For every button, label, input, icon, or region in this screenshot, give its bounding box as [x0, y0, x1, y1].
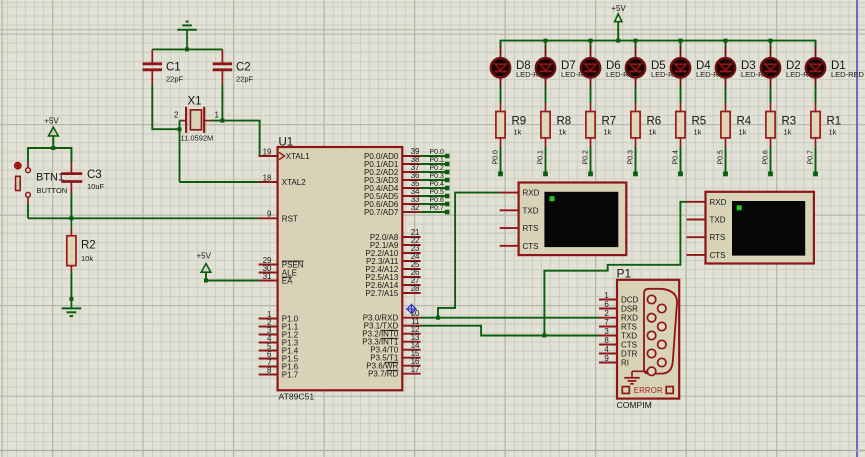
- U1 pin 18 (XTAL2): [259, 173, 307, 187]
- node P0.7 terminal: [421, 205, 450, 214]
- LED D1 labels: [831, 60, 865, 79]
- svg-text:P0.3: P0.3: [430, 173, 445, 180]
- U1 pin 12 (P3.2/INT0): [362, 325, 420, 339]
- wire: LED D2 to resistor R3: [770, 87, 772, 104]
- diode LED D1: [806, 47, 825, 87]
- svg-text:CTS: CTS: [621, 341, 637, 350]
- svg-text:11.0592M: 11.0592M: [181, 134, 214, 143]
- LED D2 labels: [786, 60, 820, 79]
- svg-text:BTN1: BTN1: [36, 172, 64, 184]
- svg-text:17: 17: [411, 365, 420, 374]
- U1 pin 6 (P1.5): [259, 350, 299, 364]
- svg-text:9: 9: [604, 354, 609, 363]
- svg-text:28: 28: [411, 284, 420, 293]
- diode LED D4: [671, 47, 690, 87]
- svg-text:1: 1: [604, 291, 609, 300]
- crystal X1: [174, 96, 219, 143]
- power +5V (button): [44, 116, 59, 148]
- svg-text:R3: R3: [782, 116, 797, 128]
- diode LED D6: [581, 47, 600, 87]
- svg-text:1k: 1k: [694, 128, 702, 137]
- junction: +5V stem on rail: [616, 39, 620, 43]
- U1 pin 33 (P0.6/AD6): [364, 195, 421, 209]
- U1 pin 7 (P1.6): [259, 358, 299, 372]
- wire: C1 to X1 pin 2: [152, 85, 179, 129]
- wire: TXD branch to VT2.RXD: [544, 202, 686, 336]
- svg-text:1k: 1k: [604, 128, 612, 137]
- svg-text:P3.7/RD: P3.7/RD: [368, 370, 398, 379]
- U1 pin 10 (P3.0/RXD): [363, 309, 421, 323]
- node P0.4 terminal: [421, 181, 450, 190]
- svg-text:P0.2: P0.2: [430, 165, 445, 172]
- virtual terminal VT1: [500, 183, 627, 256]
- svg-text:2: 2: [174, 111, 179, 120]
- U1 pin 38 (P0.1/AD1): [364, 155, 421, 169]
- wire: RST net to U1.RST: [28, 217, 259, 219]
- P1 pin 2 (RXD): [599, 309, 638, 323]
- wire: X1 pin2 node to XTAL2: [180, 121, 259, 182]
- wire: rail to LED D3: [725, 41, 727, 48]
- U1 pin 25 (P2.4/A12): [365, 260, 420, 274]
- svg-text:P0.3: P0.3: [627, 150, 634, 165]
- svg-text:1k: 1k: [829, 128, 837, 137]
- resistor R9: [496, 103, 526, 147]
- P1 pin 7 (RTS): [599, 318, 637, 332]
- LED D7 labels: [561, 60, 595, 79]
- sheet border line (right): [856, 0, 858, 457]
- svg-text:P0.0: P0.0: [430, 149, 445, 156]
- U1 pin 5 (P1.4): [259, 342, 299, 356]
- P1 pin 3 (TXD): [599, 327, 637, 341]
- wire: rail to LED D8: [500, 41, 502, 48]
- svg-text:10k: 10k: [81, 254, 93, 263]
- svg-text:DTR: DTR: [621, 350, 638, 359]
- U1 pin 17 (P3.7/RD): [368, 365, 421, 379]
- svg-text:P0.4: P0.4: [672, 150, 679, 165]
- diode LED D8: [491, 47, 510, 87]
- svg-text:R8: R8: [557, 116, 572, 128]
- P1 pin 1 (DCD): [599, 291, 639, 305]
- svg-text:3: 3: [604, 327, 609, 336]
- wire: button to RST net: [27, 204, 29, 218]
- wire: R4 to terminal P0.5: [725, 147, 727, 173]
- svg-text:4: 4: [604, 345, 609, 354]
- wire: rail to LED D7: [545, 41, 547, 48]
- U1 pin 22 (P2.1/A9): [370, 236, 421, 250]
- wire: R3 to terminal P0.6: [770, 147, 772, 173]
- svg-text:+5V: +5V: [196, 251, 211, 260]
- wire: rail to LED D4: [680, 41, 682, 48]
- U1 XTAL1 clock marker: [279, 152, 285, 159]
- svg-text:TXD: TXD: [523, 206, 539, 215]
- U1 pin 8 (P1.7): [259, 366, 299, 380]
- node P0.7 (LED column terminal): [807, 150, 818, 176]
- U1 pin 29 (PSEN): [259, 256, 304, 270]
- resistor R4: [721, 103, 752, 147]
- P1 pin 6 (DSR): [599, 300, 638, 314]
- svg-text:+5V: +5V: [44, 116, 59, 125]
- svg-text:P0.7: P0.7: [430, 205, 445, 212]
- svg-text:6: 6: [604, 300, 609, 309]
- node P0.4 (LED column terminal): [672, 150, 683, 176]
- wire: R7 to terminal P0.2: [590, 147, 592, 173]
- svg-text:COMPIM: COMPIM: [617, 400, 652, 410]
- wire: LED D1 to resistor R1: [815, 87, 817, 104]
- svg-text:P0.6: P0.6: [762, 150, 769, 165]
- diode LED D7: [536, 47, 555, 87]
- P1 DB9 holes: [647, 295, 666, 375]
- svg-text:AT89C51: AT89C51: [279, 392, 315, 402]
- svg-text:P0.7/AD7: P0.7/AD7: [364, 208, 399, 217]
- svg-text:DCD: DCD: [621, 296, 639, 305]
- wire: U1.P3.0/RXD to COMPIM RXD: [421, 317, 599, 319]
- svg-text:RXD: RXD: [523, 189, 540, 198]
- svg-text:1k: 1k: [649, 128, 657, 137]
- wire: rail to LED D1: [815, 41, 817, 48]
- svg-text:R9: R9: [512, 116, 527, 128]
- svg-text:P0.5: P0.5: [430, 189, 445, 196]
- svg-text:C1: C1: [166, 62, 181, 74]
- LED D3 labels: [741, 60, 775, 79]
- U1 pin 1 (P1.0): [259, 310, 299, 324]
- svg-text:P1.7: P1.7: [282, 371, 299, 380]
- wire: RXD branch to VT1.RXD: [438, 193, 500, 318]
- svg-text:CTS: CTS: [710, 251, 726, 260]
- wire: C1 top to C2 top: [152, 48, 222, 50]
- wire: rail to LED D5: [635, 41, 637, 48]
- svg-text:1k: 1k: [514, 128, 522, 137]
- svg-text:RTS: RTS: [523, 224, 539, 233]
- svg-text:DSR: DSR: [621, 305, 638, 314]
- svg-text:R2: R2: [81, 240, 96, 252]
- wire: X1 pin1 node to XTAL1: [211, 121, 260, 156]
- ground (P1 internal): [624, 371, 647, 384]
- svg-text:P2.7/A15: P2.7/A15: [365, 289, 398, 298]
- U1 pin 27 (P2.6/A14): [365, 276, 420, 290]
- svg-text:19: 19: [263, 147, 272, 156]
- capacitor C1: [143, 49, 184, 85]
- node P0.3 terminal: [421, 173, 450, 182]
- U1 pin 31 (EA): [259, 272, 294, 286]
- junction: C3/R2 on RST net: [69, 216, 73, 220]
- U1 pin 35 (P0.4/AD4): [364, 179, 421, 193]
- capacitor C2: [213, 49, 254, 85]
- svg-text:C2: C2: [236, 62, 251, 74]
- svg-text:C3: C3: [87, 169, 102, 181]
- wire: LED D7 to resistor R8: [545, 87, 547, 104]
- power +5V (LED rail): [611, 4, 626, 40]
- P1 ERROR indicator: [622, 386, 673, 395]
- P1 pin 9 (RI): [599, 354, 629, 368]
- svg-text:+5V: +5V: [611, 4, 626, 13]
- U1 pin 3 (P1.2): [259, 326, 299, 340]
- U1 pin 36 (P0.3/AD3): [364, 171, 421, 185]
- BTN1 state indicator: [14, 162, 21, 169]
- svg-text:R5: R5: [692, 116, 707, 128]
- resistor R2: [67, 218, 96, 272]
- svg-text:2: 2: [604, 309, 609, 318]
- node P0.6 terminal: [421, 197, 450, 206]
- svg-text:18: 18: [263, 173, 272, 182]
- wire: C2 to X1 pin 1: [221, 85, 223, 121]
- resistor R8: [541, 103, 571, 147]
- wire: LED D6 to resistor R7: [590, 87, 592, 104]
- svg-text:22pF: 22pF: [236, 75, 254, 84]
- U1 pin 24 (P2.3/A11): [366, 252, 421, 266]
- wire: rail to LED D6: [590, 41, 592, 48]
- sheet border line (bottom): [0, 450, 865, 452]
- svg-text:10uF: 10uF: [87, 182, 105, 191]
- U1 pin 13 (P3.3/INT1): [362, 333, 420, 347]
- wire: +5V to button/C3 top: [28, 148, 71, 162]
- node P0.3 (LED column terminal): [627, 150, 638, 176]
- svg-text:RXD: RXD: [710, 198, 727, 207]
- junction: +5V stem: [51, 146, 55, 150]
- svg-text:32: 32: [411, 203, 420, 212]
- button BTN1: [14, 162, 67, 204]
- U1 pin 16 (P3.6/WR): [366, 357, 420, 371]
- svg-text:LED-RED: LED-RED: [831, 70, 865, 79]
- junction: C2 / X1.1 / XTAL1: [220, 119, 224, 123]
- junction: LED rail: [724, 39, 728, 43]
- svg-text:CTS: CTS: [523, 242, 539, 251]
- svg-text:31: 31: [263, 272, 272, 281]
- junction: LED rail: [634, 39, 638, 43]
- ground (R2): [62, 299, 82, 316]
- svg-text:BUTTON: BUTTON: [37, 186, 68, 195]
- U1 pin 39 (P0.0/AD0): [364, 147, 421, 161]
- svg-text:P0.4: P0.4: [430, 181, 445, 188]
- wire: LED D8 to resistor R9: [500, 87, 502, 104]
- svg-text:1k: 1k: [739, 128, 747, 137]
- junction: R2 ground node: [69, 297, 73, 301]
- wire: rail to LED D2: [770, 41, 772, 48]
- svg-text:8: 8: [267, 366, 272, 375]
- svg-text:XTAL1: XTAL1: [286, 152, 310, 161]
- svg-text:RST: RST: [282, 214, 298, 223]
- svg-text:P0.0: P0.0: [492, 150, 499, 165]
- svg-text:1k: 1k: [784, 128, 792, 137]
- wire: LED D4 to resistor R5: [680, 87, 682, 104]
- junction: LED rail: [589, 39, 593, 43]
- svg-text:1k: 1k: [559, 128, 567, 137]
- P1 DB9 face outline: [644, 289, 677, 374]
- U1 pin 28 (P2.7/A15): [365, 284, 420, 298]
- svg-text:RI: RI: [621, 359, 629, 368]
- junction: LED rail: [769, 39, 773, 43]
- svg-text:TXD: TXD: [710, 216, 726, 225]
- U1 pin 4 (P1.3): [259, 334, 299, 348]
- U1 pin 30 (ALE): [259, 264, 297, 278]
- svg-text:P1: P1: [617, 267, 632, 281]
- U1 pin 21 (P2.0/A8): [370, 228, 421, 242]
- wire: R2 to ground: [70, 272, 72, 299]
- power +5V (EA): [196, 251, 211, 280]
- svg-text:RXD: RXD: [621, 314, 638, 323]
- junction: LED rail: [679, 39, 683, 43]
- wire: C3 bottom to RST net: [70, 193, 72, 218]
- LED D4 labels: [696, 60, 730, 79]
- LED D5 labels: [651, 60, 685, 79]
- svg-text:P0.5: P0.5: [717, 150, 724, 165]
- svg-text:R7: R7: [602, 116, 617, 128]
- svg-text:P0.1: P0.1: [430, 157, 445, 164]
- node P0.5 terminal: [421, 189, 450, 198]
- junction: ground / cap rail: [185, 47, 189, 51]
- svg-text:R4: R4: [737, 116, 752, 128]
- LED D8 labels: [516, 60, 550, 79]
- U1 pin 26 (P2.5/A13): [365, 268, 420, 282]
- svg-text:X1: X1: [188, 96, 202, 108]
- connector P1 (COMPIM): [617, 267, 680, 410]
- U1 pin 23 (P2.2/A10): [365, 244, 420, 258]
- node P0.5 (LED column terminal): [717, 150, 728, 176]
- op-amp U1 body (AT89C51 microcontroller): [278, 136, 403, 401]
- origin marker (blue): [406, 304, 417, 315]
- node P0.2 terminal: [421, 165, 450, 174]
- svg-text:P0.6: P0.6: [430, 197, 445, 204]
- svg-text:RTS: RTS: [621, 323, 637, 332]
- diode LED D3: [716, 47, 735, 87]
- node P0.1 (LED column terminal): [537, 150, 548, 176]
- wire: +5V LED supply rail: [501, 41, 816, 48]
- resistor R3: [766, 103, 796, 147]
- wire: U1.P3.1/TXD to COMPIM TXD: [421, 326, 599, 336]
- svg-text:XTAL2: XTAL2: [282, 178, 306, 187]
- svg-text:P0.7: P0.7: [807, 150, 814, 165]
- P1 pin 8 (CTS): [599, 336, 637, 350]
- resistor R5: [676, 103, 706, 147]
- U1 pin 37 (P0.2/AD2): [364, 163, 421, 177]
- svg-text:RTS: RTS: [710, 233, 726, 242]
- svg-text:8: 8: [604, 336, 609, 345]
- wire: LED D5 to resistor R6: [635, 87, 637, 104]
- ground (crystal caps): [177, 22, 197, 50]
- junction: +5V EA terminal: [204, 279, 208, 283]
- svg-text:R6: R6: [647, 116, 662, 128]
- U1 pin 14 (P3.4/T0): [370, 341, 420, 355]
- wire: R1 to terminal P0.7: [815, 147, 817, 173]
- diode LED D2: [761, 47, 780, 87]
- node P0.0 terminal: [421, 149, 450, 158]
- wire: R8 to terminal P0.1: [545, 147, 547, 173]
- svg-text:P0.2: P0.2: [582, 150, 589, 165]
- svg-text:22pF: 22pF: [166, 75, 184, 84]
- U1 pin 19 (XTAL1): [259, 147, 311, 161]
- svg-text:R1: R1: [827, 116, 842, 128]
- U1 pin 32 (P0.7/AD7): [364, 203, 421, 217]
- wire: R9 to terminal P0.0: [500, 147, 502, 173]
- junction: LED rail: [544, 39, 548, 43]
- svg-text:U1: U1: [279, 136, 294, 148]
- U1 pin 9 (RST): [259, 210, 298, 224]
- capacitor C3: [61, 148, 104, 193]
- svg-text:ERROR: ERROR: [634, 386, 663, 395]
- junction: TXD branch: [542, 334, 546, 338]
- U1 pin 15 (P3.5/T1): [370, 349, 420, 363]
- junction: RXD branch: [436, 316, 440, 320]
- svg-text:P0.1: P0.1: [537, 150, 544, 165]
- node P0.0 (LED column terminal): [492, 150, 503, 176]
- wire: LED D3 to resistor R4: [725, 87, 727, 104]
- LED D6 labels: [606, 60, 640, 79]
- U1 pin 2 (P1.1): [259, 318, 299, 332]
- node P0.2 (LED column terminal): [582, 150, 593, 176]
- P1 pin 4 (DTR): [599, 345, 638, 359]
- diode LED D5: [626, 47, 645, 87]
- svg-text:EA: EA: [282, 277, 293, 286]
- node P0.6 (LED column terminal): [762, 150, 773, 176]
- svg-text:TXD: TXD: [621, 332, 637, 341]
- virtual terminal VT2: [687, 192, 814, 264]
- svg-text:1: 1: [215, 111, 220, 120]
- resistor R7: [586, 103, 616, 147]
- node P0.1 terminal: [421, 157, 450, 166]
- junction: C1 / X1.2 / XTAL2: [178, 127, 182, 131]
- U1 pin 11 (P3.1/TXD): [364, 317, 421, 331]
- wire: R5 to terminal P0.4: [680, 147, 682, 173]
- wire: +5V to U1.EA: [206, 280, 259, 282]
- svg-text:9: 9: [267, 210, 272, 219]
- svg-text:7: 7: [604, 318, 609, 327]
- U1 pin 34 (P0.5/AD5): [364, 187, 421, 201]
- resistor R6: [631, 103, 661, 147]
- resistor R1: [811, 103, 841, 147]
- wire: R6 to terminal P0.3: [635, 147, 637, 173]
